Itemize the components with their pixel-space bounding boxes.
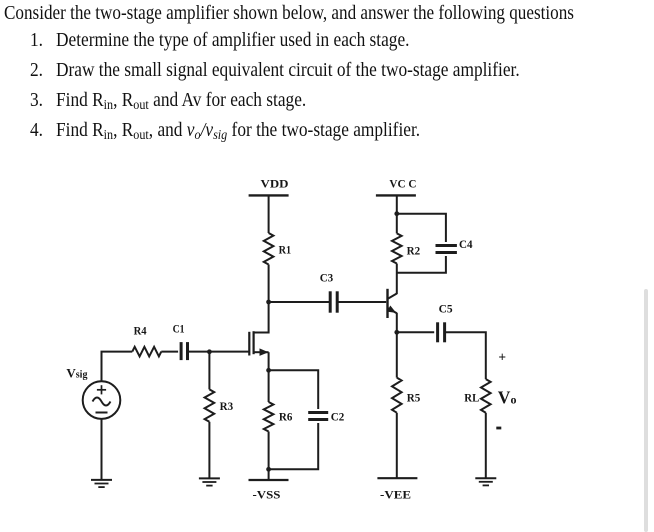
wire RL to ground: [485, 413, 487, 479]
transistor Q1 (NPN): [387, 289, 397, 318]
svg-text:R4: R4: [134, 324, 147, 338]
resistor R6: [264, 402, 293, 432]
svg-text:C1: C1: [173, 321, 185, 335]
svg-text:C3: C3: [320, 271, 334, 285]
wire node to -VSS rail: [268, 469, 270, 480]
wire R2 to Q1 collector: [396, 264, 398, 295]
output - label: [496, 427, 501, 430]
svg-text:-VSS: -VSS: [253, 487, 281, 501]
resistor R5: [392, 378, 420, 413]
wire C5 to RL branch: [445, 332, 486, 379]
svg-text:Vo: Vo: [498, 388, 517, 408]
svg-text:R5: R5: [407, 391, 421, 405]
power rail -VEE: [377, 478, 417, 501]
wire R1 to drain node: [268, 265, 270, 303]
svg-text:C4: C4: [459, 237, 473, 251]
node drain (R1/C3/M1 drain): [266, 300, 271, 305]
wire node down to R3: [208, 352, 210, 390]
wire node down to R6: [268, 370, 270, 402]
wire node to C3: [269, 301, 330, 303]
wire M1 source down to node: [268, 352, 270, 370]
svg-text:-VEE: -VEE: [380, 488, 411, 502]
svg-text:R3: R3: [220, 399, 234, 413]
capacitor C1: [173, 321, 188, 360]
wire R3 to ground: [208, 422, 210, 479]
wire C2 bottom to node: [269, 423, 319, 469]
wire node down to R2: [396, 214, 398, 234]
svg-text:C2: C2: [331, 409, 345, 423]
scrollbar: [644, 289, 649, 532]
wire Q1 emitter down to node: [396, 313, 398, 332]
svg-text:R6: R6: [279, 409, 293, 423]
node gate (C1/R3/M1 gate): [207, 349, 212, 354]
resistor R4: [132, 324, 161, 357]
svg-text:+: +: [498, 349, 506, 364]
power rail -VSS: [249, 480, 289, 501]
capacitor C5: [438, 301, 453, 342]
wire R6 to bottom node: [268, 432, 270, 470]
capacitor C2: [308, 409, 344, 423]
wire C4 bottom to R2 bottom: [397, 256, 446, 273]
svg-text:RL: RL: [464, 391, 479, 405]
wire node to C5: [397, 331, 434, 333]
svg-text:VC C: VC C: [389, 176, 416, 190]
svg-text:R2: R2: [407, 243, 421, 257]
wire Vsig bottom to ground: [101, 419, 103, 480]
wire node to C4 branch: [397, 214, 446, 242]
power rail VCC: [376, 176, 417, 195]
wire drain node down to M1: [268, 302, 270, 334]
wire VCC to node: [396, 195, 398, 213]
capacitor C4: [436, 237, 473, 252]
transistor M1 (NMOS): [249, 331, 268, 356]
node source (R6/C2 branch): [266, 368, 271, 373]
wire VDD to R1: [268, 195, 270, 233]
svg-text:VDD: VDD: [261, 176, 289, 190]
svg-text:R1: R1: [279, 242, 292, 256]
wire R5 to -VEE rail: [396, 413, 398, 479]
wire Vsig top to R4: [102, 352, 133, 382]
resistor R2: [392, 233, 420, 263]
svg-text:C5: C5: [439, 301, 453, 315]
capacitor C3: [320, 271, 338, 313]
node VCC (R2/C4): [394, 211, 399, 216]
svg-text:Vsig: Vsig: [66, 365, 87, 380]
ground (Vsig): [91, 479, 112, 481]
wire R4 to C1: [161, 351, 178, 353]
ground (R3): [199, 477, 220, 479]
resistor R1: [264, 233, 291, 265]
resistor RL: [464, 379, 490, 413]
source Vsig: [66, 365, 120, 419]
node bottom (R6/C2 join): [266, 467, 271, 472]
wire node to C2 branch top: [269, 370, 319, 409]
wire C3 to Q1 base: [337, 301, 386, 303]
wire node to M1 gate: [209, 351, 249, 353]
wire C1 to gate node: [188, 351, 210, 353]
node emitter (R5/C5): [394, 330, 399, 335]
ground (RL): [475, 477, 496, 479]
resistor R3: [205, 389, 234, 421]
wire node down to R5: [396, 332, 398, 377]
power rail VDD: [249, 176, 289, 195]
